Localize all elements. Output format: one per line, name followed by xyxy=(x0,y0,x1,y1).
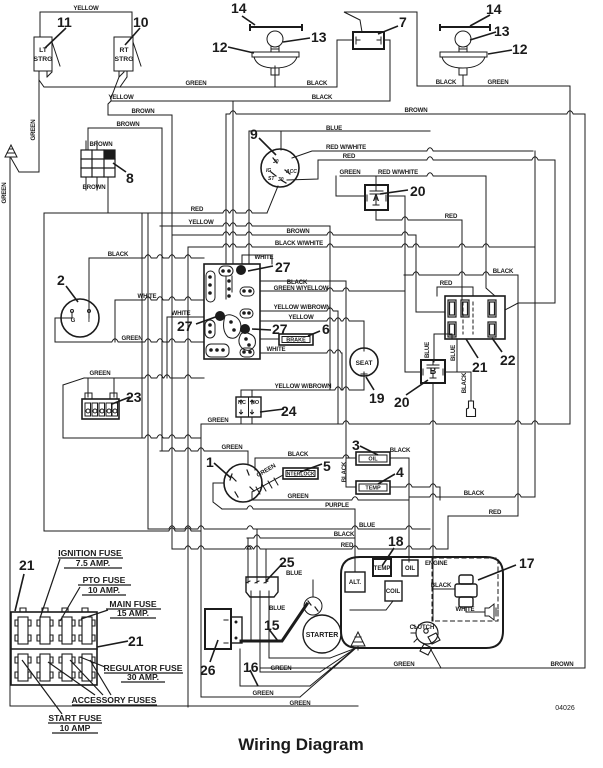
wire ignition acc RED W/WHITE y151 xyxy=(292,148,533,158)
wire GREEN left bus down xyxy=(9,157,11,706)
svg-text:26: 26 xyxy=(200,662,216,678)
wire panel right BLACK y281 xyxy=(260,280,346,282)
wire lamp L stem xyxy=(274,66,276,87)
svg-text:19: 19 xyxy=(369,390,385,406)
wire RED y213 xyxy=(44,210,267,213)
svg-text:7: 7 xyxy=(399,14,407,30)
frame x44 down xyxy=(43,213,45,531)
NC NO switch 24 xyxy=(236,397,261,417)
svg-text:BLACK: BLACK xyxy=(464,490,485,497)
wire y686 xyxy=(240,685,310,687)
wire 25 bottom pins xyxy=(251,597,330,672)
svg-text:BLACK: BLACK xyxy=(341,461,348,482)
wire RED y549 xyxy=(172,546,448,549)
svg-text:BLUE: BLUE xyxy=(269,605,285,612)
svg-text:BLACK: BLACK xyxy=(108,251,129,258)
wire relay A right xyxy=(388,196,421,372)
svg-text:GREEN: GREEN xyxy=(90,370,111,377)
svg-text:GREEN: GREEN xyxy=(30,120,37,141)
wire seat bottom to y390 xyxy=(363,378,365,390)
svg-text:21: 21 xyxy=(19,557,35,573)
svg-text:CLUTCH: CLUTCH xyxy=(410,625,435,631)
wire BLACK W/WHITE y247 xyxy=(188,244,535,247)
wire YELLOW top strobes xyxy=(40,12,132,37)
wire box7 top loop xyxy=(344,12,417,86)
svg-text:18: 18 xyxy=(388,533,404,549)
svg-text:9: 9 xyxy=(250,126,258,142)
svg-text:LT: LT xyxy=(39,47,48,54)
svg-text:BRAKE: BRAKE xyxy=(286,338,306,344)
wire box7 left down xyxy=(337,40,353,87)
clutch circle xyxy=(416,622,438,644)
wire BLACK y258 xyxy=(89,255,204,258)
wire x257 down to 25 xyxy=(256,529,258,577)
svg-text:RED: RED xyxy=(341,542,354,549)
wire circle2 left loop xyxy=(55,318,72,342)
svg-text:STRG: STRG xyxy=(115,56,134,63)
svg-text:24: 24 xyxy=(281,403,297,419)
panel black connector a xyxy=(237,266,246,275)
svg-text:13: 13 xyxy=(494,23,510,39)
interlock box 5 xyxy=(283,468,318,479)
svg-text:ACC: ACC xyxy=(285,169,297,175)
wire PURPLE y509 xyxy=(222,506,355,538)
wire RED x555 down xyxy=(505,160,555,310)
ignition circle 9 xyxy=(261,149,299,187)
lamp housing 12 L xyxy=(252,52,299,75)
wire x338 xyxy=(337,311,339,424)
wire ignition 30 RED y160 xyxy=(287,157,555,180)
panel 27 box xyxy=(204,264,260,359)
wire relay A bottom RED y220 xyxy=(376,210,462,220)
wire battery bottom xyxy=(239,649,241,686)
ground fan diagonals xyxy=(300,648,356,697)
clutch plug squares xyxy=(420,633,440,655)
svg-text:20: 20 xyxy=(394,394,410,410)
svg-text:YELLOW: YELLOW xyxy=(73,5,99,12)
connector 23 xyxy=(82,399,119,419)
wire strobe ground left xyxy=(11,80,39,172)
wire BLACK y458 xyxy=(255,455,356,470)
wire x248 down to 25 xyxy=(247,538,249,577)
svg-text:BLACK: BLACK xyxy=(307,80,328,87)
svg-text:TEMP: TEMP xyxy=(374,566,391,572)
svg-text:COIL: COIL xyxy=(386,589,401,595)
wire GREEN y451 xyxy=(160,448,248,464)
svg-text:20: 20 xyxy=(410,183,426,199)
svg-text:ACCESSORY FUSES: ACCESSORY FUSES xyxy=(71,695,156,705)
svg-text:6: 6 xyxy=(322,321,330,337)
svg-text:3: 3 xyxy=(352,437,360,453)
coil box xyxy=(385,581,402,601)
wire WHITE from 17 xyxy=(466,607,485,612)
connector 23 pins xyxy=(88,378,114,397)
svg-text:IGNITION FUSE: IGNITION FUSE xyxy=(58,548,122,558)
wire panel right GREEN W/YELLOW y291 xyxy=(260,288,405,291)
svg-text:12: 12 xyxy=(212,39,228,55)
wire panel right BRAKE y339 xyxy=(260,338,279,340)
svg-text:BLACK: BLACK xyxy=(312,94,333,101)
svg-text:17: 17 xyxy=(519,555,535,571)
strobe RT box 10 xyxy=(114,37,133,71)
relay B box 20 xyxy=(421,360,445,383)
svg-text:BLUE: BLUE xyxy=(450,345,457,361)
svg-text:GREEN: GREEN xyxy=(222,444,243,451)
rotated labels xyxy=(1,120,468,483)
svg-text:GREEN: GREEN xyxy=(271,665,292,672)
svg-text:WHITE: WHITE xyxy=(138,293,157,300)
svg-text:BLACK: BLACK xyxy=(493,268,514,275)
fuses xyxy=(15,617,95,681)
svg-text:21: 21 xyxy=(128,633,144,649)
wire x233 down to panel xyxy=(232,101,234,264)
svg-text:BROWN: BROWN xyxy=(551,661,574,668)
wire GREEN right to x570 xyxy=(463,86,570,423)
wire GREEN y672 xyxy=(260,671,320,673)
svg-text:RT: RT xyxy=(119,47,129,54)
svg-text:B: B xyxy=(430,366,437,376)
wire x330 xyxy=(329,226,331,390)
wire BROWN brown1 y115 xyxy=(108,101,172,115)
lamp bar 14 R xyxy=(440,25,490,30)
wire RED W/WHITE y176 xyxy=(340,173,486,185)
svg-text:IG: IG xyxy=(266,168,271,174)
panel black connector c xyxy=(241,325,250,334)
wire GREEN/BLACK lamp bus y87 xyxy=(39,80,337,87)
wire temp right down xyxy=(390,484,440,500)
bulb 13 R xyxy=(455,31,471,47)
svg-text:BLACK W/WHITE: BLACK W/WHITE xyxy=(275,240,323,247)
svg-text:GREEN: GREEN xyxy=(186,80,207,87)
relay B feeds BLUE xyxy=(434,334,457,372)
svg-text:GREEN W/YELLOW: GREEN W/YELLOW xyxy=(274,285,329,292)
wire RED y516 xyxy=(448,516,518,549)
connector 8 black cell xyxy=(104,150,115,159)
svg-text:YELLOW: YELLOW xyxy=(108,94,134,101)
wire YELLOW W-BROWN y390 xyxy=(241,387,364,390)
speaker ground xyxy=(485,604,498,620)
svg-text:BROWN: BROWN xyxy=(83,184,106,191)
wire relay B bottom clutch xyxy=(432,383,434,621)
svg-text:WHITE: WHITE xyxy=(267,346,286,353)
svg-text:04026: 04026 xyxy=(555,705,575,712)
svg-text:BROWN: BROWN xyxy=(90,141,113,148)
svg-text:16: 16 xyxy=(243,659,259,675)
svg-text:WHITE: WHITE xyxy=(255,254,274,261)
svg-text:BLACK: BLACK xyxy=(461,372,468,393)
wire BLACK to 17 xyxy=(432,588,455,590)
wire BROWN y114 xyxy=(226,111,585,668)
wire x462 to conn21 xyxy=(461,220,463,300)
svg-text:BLUE: BLUE xyxy=(424,342,431,358)
svg-text:BLACK: BLACK xyxy=(390,447,411,454)
svg-text:RED: RED xyxy=(343,153,356,160)
wire BLACK y275 xyxy=(404,272,518,516)
wire bundle verticals left xyxy=(141,213,143,438)
label texts xyxy=(48,548,182,733)
svg-text:YELLOW W/BROWN: YELLOW W/BROWN xyxy=(275,383,332,390)
starter circle xyxy=(303,615,341,653)
svg-text:4: 4 xyxy=(396,464,404,480)
wire ignition top BLUE y131 xyxy=(249,131,430,264)
svg-text:PTO FUSE: PTO FUSE xyxy=(83,575,126,585)
svg-text:15: 15 xyxy=(264,617,280,633)
wire coil bottom xyxy=(350,601,393,610)
svg-text:A: A xyxy=(373,193,380,203)
conn terminals xyxy=(448,300,496,337)
svg-text:RED: RED xyxy=(191,206,204,213)
wire BLACK y497 xyxy=(409,494,535,497)
svg-text:30: 30 xyxy=(273,159,279,165)
svg-text:23: 23 xyxy=(126,389,142,405)
svg-text:INTERLOCK: INTERLOCK xyxy=(285,472,315,478)
svg-text:TEMP: TEMP xyxy=(365,486,381,492)
svg-text:PURPLE: PURPLE xyxy=(325,502,349,509)
fuse box 21 xyxy=(11,612,97,685)
callout numbers xyxy=(19,0,535,678)
fuse caps xyxy=(20,608,88,612)
svg-text:BLACK: BLACK xyxy=(436,79,457,86)
oil box 3 xyxy=(356,452,390,465)
svg-text:12: 12 xyxy=(512,41,528,57)
svg-text:GREEN: GREEN xyxy=(340,169,361,176)
svg-text:YELLOW: YELLOW xyxy=(188,219,214,226)
svg-text:27: 27 xyxy=(177,318,193,334)
wire BLACK y538 xyxy=(247,535,355,572)
svg-text:NO: NO xyxy=(251,400,260,406)
wire panel right WHITE y353 xyxy=(260,350,342,390)
wire seat top yellow xyxy=(363,321,365,344)
svg-text:BLUE: BLUE xyxy=(359,522,375,529)
svg-text:13: 13 xyxy=(311,29,327,45)
svg-text:GREEN: GREEN xyxy=(488,79,509,86)
svg-text:GREEN: GREEN xyxy=(290,700,311,707)
svg-text:1: 1 xyxy=(206,454,214,470)
svg-text:GREEN: GREEN xyxy=(1,183,8,204)
svg-text:BLUE: BLUE xyxy=(286,570,302,577)
wire GREEN y377 xyxy=(63,375,204,385)
svg-text:GREEN: GREEN xyxy=(394,661,415,668)
svg-text:START FUSE: START FUSE xyxy=(48,713,102,723)
svg-text:GREEN: GREEN xyxy=(122,335,143,342)
wire BROWN y235 xyxy=(172,232,445,312)
svg-text:YELLOW: YELLOW xyxy=(288,314,314,321)
box 7 xyxy=(353,32,384,49)
ground symbol top left xyxy=(5,145,17,157)
svg-text:10 AMP: 10 AMP xyxy=(60,723,91,733)
ignition pins xyxy=(271,158,290,183)
wire ignition diag to red xyxy=(267,186,278,213)
wire GREEN y342 xyxy=(55,339,204,342)
connector 21-22 box xyxy=(445,296,505,339)
svg-text:RED W/WHITE: RED W/WHITE xyxy=(326,144,366,151)
oil gauge xyxy=(402,560,418,576)
wire BROWN brown2 y128 xyxy=(88,127,162,129)
alt box xyxy=(345,572,365,592)
wire GREEN y706 xyxy=(10,705,358,707)
wire x486 to conn21 xyxy=(486,176,495,296)
wire RED W/WHITE x535 down xyxy=(534,151,536,497)
wire RT strobe to yellow xyxy=(111,77,127,101)
svg-text:22: 22 xyxy=(500,352,516,368)
svg-text:ENGINE: ENGINE xyxy=(425,560,448,567)
panel black connector b xyxy=(216,312,225,321)
wire key hatched to interlock xyxy=(252,475,283,492)
strobe LT box 11 xyxy=(34,37,52,71)
plug outline xyxy=(467,401,476,417)
svg-text:14: 14 xyxy=(231,0,247,16)
strobe RT legs xyxy=(119,71,127,77)
wire GREEN y424 xyxy=(201,421,570,424)
svg-text:BROWN: BROWN xyxy=(132,108,155,115)
svg-text:GREEN: GREEN xyxy=(208,417,229,424)
label leader lines xyxy=(22,559,111,714)
circle 2 pins xyxy=(72,312,89,318)
wire GREEN-BROWN y668 xyxy=(260,667,585,669)
wire x266 down to 25 xyxy=(265,549,267,577)
wire GREEN y697 xyxy=(201,696,300,698)
wire GREEN y500 xyxy=(250,497,409,500)
svg-text:SEAT: SEAT xyxy=(356,360,373,367)
wire key bottom green xyxy=(251,492,253,500)
wire lamp R stem xyxy=(417,75,463,86)
wire WHITE y300 xyxy=(115,297,204,342)
svg-text:10: 10 xyxy=(133,14,149,30)
temp gauge xyxy=(373,559,391,576)
strobe LT whip xyxy=(52,42,60,66)
svg-text:11: 11 xyxy=(57,14,72,30)
svg-text:21: 21 xyxy=(472,359,488,375)
svg-text:RED: RED xyxy=(445,213,458,220)
bulb 13 L xyxy=(267,31,283,47)
wire x242 white to panel xyxy=(242,255,272,264)
relay A box 20 xyxy=(365,185,388,210)
svg-text:30: 30 xyxy=(278,177,284,183)
wire oil-temp left xyxy=(346,458,356,487)
svg-text:BLUE: BLUE xyxy=(326,125,342,132)
svg-text:BLACK: BLACK xyxy=(334,531,355,538)
dashed engine box xyxy=(432,558,498,621)
component 17 xyxy=(455,575,477,607)
svg-text:YELLOW W/BROWN: YELLOW W/BROWN xyxy=(274,304,331,311)
svg-text:G: G xyxy=(71,318,76,324)
svg-text:10 AMP.: 10 AMP. xyxy=(88,585,120,595)
svg-text:GREEN: GREEN xyxy=(253,690,274,697)
svg-text:25: 25 xyxy=(279,554,295,570)
wire oil right down xyxy=(390,458,409,562)
wire panel right YELLOW y321 xyxy=(260,318,364,321)
svg-text:OIL: OIL xyxy=(368,457,378,463)
ground triangle engine xyxy=(351,632,365,646)
wire clutch diag xyxy=(430,648,441,668)
svg-text:7.5 AMP.: 7.5 AMP. xyxy=(76,558,110,568)
svg-text:Wiring Diagram: Wiring Diagram xyxy=(238,735,363,754)
svg-text:BLACK: BLACK xyxy=(288,451,309,458)
wire x226 down to panel xyxy=(225,114,227,264)
svg-text:RED W/WHITE: RED W/WHITE xyxy=(378,169,418,176)
svg-text:BROWN: BROWN xyxy=(117,121,140,128)
svg-text:NC: NC xyxy=(238,400,246,406)
callout arrows xyxy=(15,15,516,686)
svg-text:27: 27 xyxy=(272,321,288,337)
wire relay A GREEN left xyxy=(336,176,365,196)
underlines xyxy=(48,558,183,733)
connector 25 xyxy=(246,577,278,597)
svg-text:BROWN: BROWN xyxy=(287,228,310,235)
conn dashes xyxy=(463,302,473,334)
svg-text:WHITE: WHITE xyxy=(172,310,191,317)
seat circle 19 xyxy=(350,348,378,376)
brake box 6 xyxy=(279,334,313,345)
svg-text:GREEN: GREEN xyxy=(288,493,309,500)
solenoid circle xyxy=(304,597,322,615)
wire YELLOW y226 xyxy=(160,223,330,226)
wire x346 xyxy=(345,281,347,487)
wire labels xyxy=(73,5,573,707)
svg-text:2: 2 xyxy=(57,272,65,288)
wire starter vertical xyxy=(312,580,314,597)
connector 8 block xyxy=(81,150,115,177)
svg-text:STRG: STRG xyxy=(34,56,53,63)
strobe RT whip xyxy=(133,42,141,66)
lamp bar 14 L xyxy=(250,25,302,30)
connector 8 pins xyxy=(86,141,108,213)
strobe LT legs xyxy=(39,71,52,80)
svg-text:STARTER: STARTER xyxy=(306,632,339,639)
svg-text:RED: RED xyxy=(489,509,502,516)
svg-text:WHITE: WHITE xyxy=(456,606,475,613)
key switch 1 xyxy=(224,464,262,502)
battery 26 xyxy=(205,609,231,649)
wire battery cable thick xyxy=(241,604,307,641)
svg-text:OIL: OIL xyxy=(405,566,415,572)
svg-text:ALT.: ALT. xyxy=(349,580,362,586)
component texts xyxy=(34,47,437,639)
panel ovals xyxy=(206,271,215,302)
svg-text:14: 14 xyxy=(486,1,502,17)
svg-text:27: 27 xyxy=(275,259,291,275)
wire RED y287 jog xyxy=(437,287,473,296)
wire box7 right down BLACK y101 xyxy=(111,40,390,101)
lamp housing 12 R xyxy=(440,52,487,75)
wire circle2 right up BLACK xyxy=(88,258,90,311)
engine box xyxy=(341,557,503,648)
svg-text:RED: RED xyxy=(440,280,453,287)
circle 2 xyxy=(61,299,99,337)
wire key left loop xyxy=(213,483,224,509)
svg-text:8: 8 xyxy=(126,170,134,186)
wire relay B right plug xyxy=(445,372,471,401)
svg-text:ST: ST xyxy=(268,176,275,182)
svg-text:BROWN: BROWN xyxy=(405,107,428,114)
wire BLUE y529 xyxy=(148,526,430,529)
svg-text:BLACK: BLACK xyxy=(431,582,452,589)
svg-text:5: 5 xyxy=(323,458,331,474)
wire y438 xyxy=(63,385,201,438)
temp box 4 xyxy=(356,481,390,494)
wire WHITE y317 xyxy=(167,317,204,378)
wire panel right YELLOW W/BROWN y311 xyxy=(260,308,338,311)
